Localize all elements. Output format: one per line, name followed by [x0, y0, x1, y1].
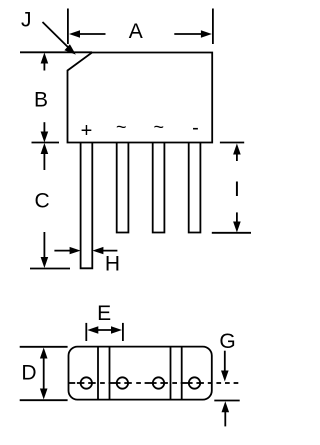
bottom view seam line 1	[97, 347, 99, 400]
dimension B arrow up	[41, 53, 49, 71]
pin 1 (+)	[81, 143, 93, 269]
dimension I arrow down	[233, 212, 241, 232]
bottom view seam line 2	[109, 347, 111, 400]
svg-text:~: ~	[153, 117, 164, 137]
dimension D extension line bottom	[20, 399, 68, 401]
pin hole circle 4	[189, 377, 200, 388]
pin hole circle 1	[81, 377, 92, 388]
dimension C arrow down	[41, 232, 49, 268]
svg-text:E: E	[97, 302, 111, 325]
pin hole circle 2	[117, 377, 128, 388]
svg-text:D: D	[21, 361, 36, 384]
dimension D extension line top	[20, 346, 68, 348]
dimension E tick left	[85, 323, 87, 341]
bottom view body (rounded rect)	[69, 347, 212, 400]
dimension A extension line right	[212, 9, 214, 45]
dimension A arrow right	[174, 30, 212, 37]
dimension I extension line bottom	[212, 232, 251, 234]
svg-text:B: B	[34, 88, 48, 111]
dimension B/C shared extension line	[32, 142, 60, 144]
body outline (front view, chamfered top-left)	[68, 53, 213, 143]
svg-text:J: J	[21, 9, 32, 32]
dimension J leader arrow	[43, 22, 76, 55]
svg-text:-: -	[192, 117, 199, 139]
dimension A arrow left	[69, 30, 106, 37]
svg-text:~: ~	[116, 117, 127, 137]
svg-text:C: C	[35, 190, 50, 213]
dimension A extension line left	[67, 9, 69, 45]
pin 4 (-)	[189, 143, 201, 233]
dimension E tick right	[122, 323, 124, 341]
pin hole circle 3	[153, 377, 164, 388]
bottom view seam line 3	[170, 347, 172, 400]
centerline dashed	[69, 382, 239, 384]
svg-text:A: A	[129, 20, 143, 43]
dimension B extension line top	[20, 51, 92, 53]
dimension I arrow up	[233, 144, 241, 162]
dimension G arrow down	[221, 351, 229, 382]
dimension D double arrow	[40, 348, 48, 400]
svg-text:G: G	[219, 330, 235, 353]
svg-text:H: H	[105, 253, 120, 276]
dimension E double arrow	[87, 326, 122, 333]
dimension C bottom extension line	[30, 268, 70, 270]
dimension H arrow pointing left	[92, 247, 117, 254]
dimension H arrow pointing right	[54, 247, 80, 254]
dimension I extension line top	[220, 142, 244, 144]
bottom view seam line 4	[181, 347, 183, 400]
pin 3 (~)	[153, 143, 165, 233]
dimension B arrow down	[41, 122, 49, 142]
pin 2 (~)	[117, 143, 129, 233]
dimension G arrow up	[222, 401, 230, 426]
dimension C arrow up	[41, 143, 49, 170]
dimension G extension line	[214, 400, 239, 402]
svg-text:I: I	[234, 178, 240, 201]
svg-text:+: +	[81, 120, 93, 142]
